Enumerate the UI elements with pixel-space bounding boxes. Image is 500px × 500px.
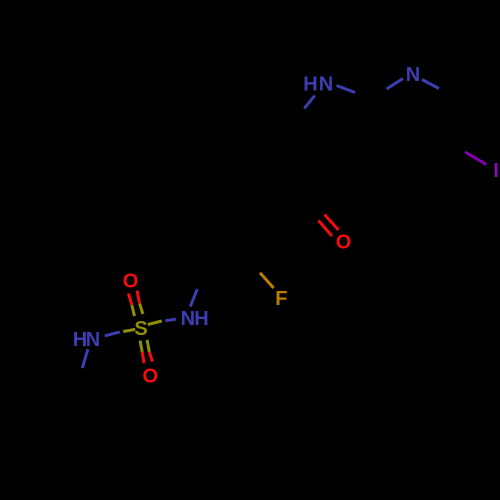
svg-text:O: O xyxy=(143,366,159,388)
svg-text:N: N xyxy=(86,329,100,351)
svg-text:F: F xyxy=(275,288,287,310)
svg-text:H: H xyxy=(303,73,317,95)
atom I iodine label xyxy=(495,163,498,177)
bond S=O bottom double bond line2 (olive upper part) xyxy=(147,340,149,352)
bond N(left)-CH2 chain (blue half going down) xyxy=(82,349,88,368)
bond S=O top double bond line2 (olive lower part) xyxy=(140,304,143,315)
bond C=O ketone double bond (red halves) xyxy=(319,221,333,237)
bond S=O bottom double bond line2 (red lower part) xyxy=(149,352,152,362)
svg-text:N: N xyxy=(406,64,420,86)
bond N7-C7a (pyridine N left, blue half) xyxy=(387,79,404,90)
bond N1-C7a (pyrrole NH to ring-fusion carbon, blue half) xyxy=(337,86,356,93)
bond N(aryl)-C1 (blue half going up to benzene) xyxy=(190,289,197,307)
bond S=O bottom double bond line1 (red lower part) xyxy=(142,352,144,363)
atom N left sulfamide HN label xyxy=(73,329,100,351)
atom N1 pyrrole NH label xyxy=(303,73,333,95)
bond S=O bottom double bond line1 (olive upper part) xyxy=(140,341,142,352)
bond S-N(left) olive half xyxy=(123,329,135,331)
bond N(aryl)-S blue half xyxy=(165,319,176,321)
atom N aryl sulfamide NH label xyxy=(181,308,209,330)
bond C-F (gold half) xyxy=(260,273,274,288)
svg-text:N: N xyxy=(319,73,333,95)
svg-text:O: O xyxy=(123,271,139,293)
bond N(left)-S blue half xyxy=(105,332,120,336)
bond S=O top double bond line1 (red upper part) xyxy=(129,294,132,306)
bond N7-C6 (pyridine N right, blue half) xyxy=(422,80,439,89)
svg-text:N: N xyxy=(181,308,195,330)
svg-text:H: H xyxy=(194,308,208,330)
svg-text:O: O xyxy=(336,232,352,254)
bond N1-C2 (pyrrole NH down-left, blue half) xyxy=(304,96,314,109)
svg-text:S: S xyxy=(134,318,147,340)
bond C5-I (purple half) xyxy=(465,152,486,164)
bond S-N(aryl) olive half xyxy=(148,321,162,325)
bond S=O top double bond line2 (red upper part) xyxy=(137,291,140,304)
bond S=O top double bond line1 (olive lower part) xyxy=(132,305,135,316)
